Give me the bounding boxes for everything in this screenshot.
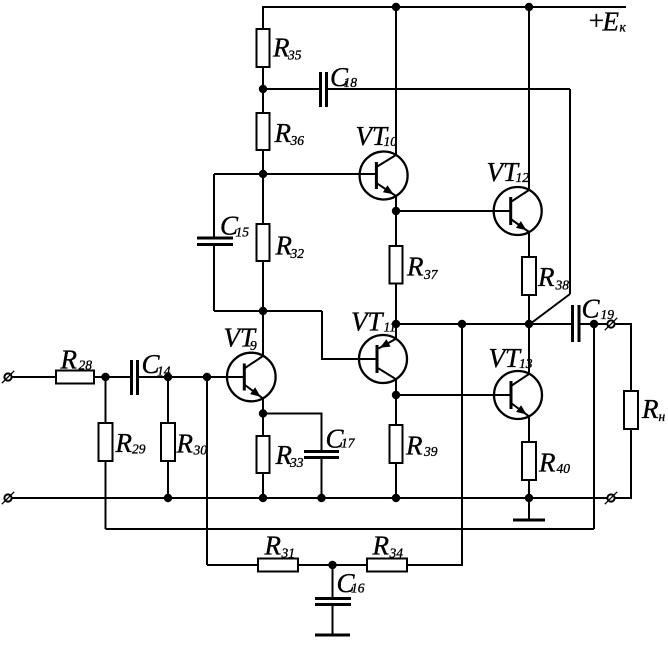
wire: VT13 collector lead to output node (528, 324, 530, 374)
capacitor C17 (304, 452, 339, 458)
wire: C18 right vertical drop (569, 89, 571, 294)
resistor R34 (367, 559, 407, 572)
transistor VT10 (360, 152, 408, 200)
svg-text:E: E (602, 7, 620, 37)
svg-text:39: 39 (423, 444, 438, 459)
svg-text:35: 35 (287, 48, 302, 63)
svg-text:R: R (538, 448, 556, 478)
wire: junction down to R29 (105, 377, 107, 423)
svg-text:18: 18 (344, 75, 358, 90)
wire: VT12 base line (396, 210, 511, 212)
svg-text:10: 10 (384, 134, 398, 149)
wire: R34 right lead up to output line (407, 324, 462, 565)
node: top rail / VT12 collector column (525, 3, 533, 11)
svg-text:12: 12 (516, 170, 530, 185)
svg-text:32: 32 (290, 246, 305, 261)
wire: VT13 emitter to R40 (528, 416, 530, 442)
transistor VT9 (227, 353, 276, 402)
capacitor C16 (315, 599, 351, 605)
wire: node to R37 top (395, 211, 397, 246)
svg-text:28: 28 (79, 358, 93, 373)
svg-text:R: R (537, 262, 555, 292)
svg-text:11: 11 (384, 320, 397, 335)
svg-text:R: R (264, 531, 282, 561)
svg-text:VT: VT (351, 307, 384, 337)
capacitor C18 (321, 72, 327, 107)
wire: Rn bottom to lower output terminal (615, 429, 631, 498)
wire: common rail (12, 497, 608, 499)
transistor VT12 (494, 187, 542, 235)
node: VT11 collector / R39 / VT13 base junction (392, 391, 400, 399)
terminal: input upper (2, 371, 14, 383)
capacitor C14 (132, 360, 138, 395)
node: VT9 emitter / R33 / C17 junction (259, 409, 267, 417)
resistor R31 (258, 559, 298, 572)
svg-text:н: н (659, 409, 666, 424)
wire: VT9 emitter lead (262, 399, 264, 414)
ground below C16 (315, 634, 350, 637)
svg-text:40: 40 (557, 461, 571, 476)
svg-text:к: к (620, 20, 627, 35)
wire: VT9 collector lead (262, 311, 264, 356)
resistor R32 (257, 224, 270, 261)
svg-text:19: 19 (601, 307, 615, 322)
wire: VT10 emitter lead (395, 196, 397, 211)
svg-text:R: R (406, 252, 424, 282)
wire: VT11 emitter lead from output node (395, 324, 397, 339)
node: R33 on rail (259, 494, 267, 502)
wire: VT10 base line from C15 top (214, 173, 377, 175)
wire: first stage output line C15 to VT11 drop (214, 310, 322, 312)
svg-text:38: 38 (555, 278, 570, 293)
wire: C15 bottom lead (213, 245, 215, 312)
wire: R39 bottom to rail (395, 463, 397, 498)
svg-text:R: R (274, 118, 292, 148)
wire: R38 bottom to output node (528, 295, 530, 324)
resistor R40 (522, 442, 536, 480)
wire: R28 to C14 (94, 376, 130, 378)
transistor VT11 (pnp) (359, 335, 407, 383)
capacitor C15 (197, 238, 233, 245)
resistor R28 (56, 371, 94, 384)
svg-text:16: 16 (351, 581, 365, 596)
wire: R36 bottom to R32 top (262, 150, 264, 224)
svg-text:37: 37 (423, 267, 439, 282)
svg-text:R: R (60, 345, 78, 375)
svg-text:30: 30 (193, 443, 208, 458)
resistor R35 (257, 29, 270, 67)
wire: C14 to VT9 base (139, 376, 245, 378)
wire: input terminal to R28 (12, 376, 56, 378)
node: R39 on rail (392, 494, 400, 502)
node: top rail / VT10 collector column (392, 3, 400, 11)
svg-text:31: 31 (281, 546, 296, 561)
node: R37 / VT11 emitter junction on output line (392, 320, 400, 328)
wire: R33 bottom to common rail (262, 473, 264, 498)
svg-text:R: R (115, 428, 133, 458)
svg-text:C: C (582, 294, 601, 324)
node: output line / R34 feedback column (458, 320, 466, 328)
wire: diagonal from C18 drop to output node (530, 294, 570, 324)
resistor R37 (390, 246, 403, 284)
wire: VT10 collector column from rail (395, 7, 397, 155)
wire: R31 to R34 (298, 564, 367, 566)
svg-text:R: R (405, 431, 423, 461)
node: R36/R32/VT10-base junction (259, 170, 267, 178)
node: R30 on rail (164, 494, 172, 502)
svg-text:R: R (176, 429, 194, 459)
resistor Rn (load) (624, 391, 638, 429)
wire: junction down to R30 (167, 377, 169, 423)
resistor R39 (390, 425, 403, 463)
svg-text:34: 34 (389, 546, 404, 561)
node: R40 on rail (525, 494, 533, 502)
wire: feedback vertical from C19 node (593, 324, 595, 529)
node: R38 / VT13 collector / C18-diagonal junction (525, 320, 533, 328)
svg-text:R: R (641, 394, 659, 424)
resistor R38 (522, 257, 536, 295)
wire: R35 bottom to R36 top (262, 67, 264, 113)
svg-text:15: 15 (236, 225, 250, 240)
svg-text:13: 13 (519, 356, 533, 371)
wire: output line y=324 (396, 323, 571, 325)
node: R35/R36/C18 junction (259, 85, 267, 93)
wire: C18 left lead (263, 88, 319, 90)
wire: emitter node to R33 (262, 414, 264, 437)
resistor R29 (99, 423, 113, 461)
wire: C15 top lead (213, 174, 215, 238)
wire: feedback horizontal line (106, 528, 595, 530)
wire: C18 right lead across to right column (328, 88, 570, 90)
transistor VT13 (494, 371, 542, 419)
node: C19 / feedback takeoff (590, 320, 598, 328)
resistor R30 (161, 423, 175, 461)
wire: C16 bottom lead (332, 605, 334, 636)
node: R31 column top junction (203, 373, 211, 381)
node: R28 / R29 / C14 junction (101, 373, 109, 381)
wire: node to R39 top (395, 395, 397, 425)
svg-text:36: 36 (290, 133, 305, 148)
wire: output terminal to Rn top (615, 324, 631, 391)
resistor R33 (257, 436, 270, 473)
svg-text:33: 33 (289, 455, 304, 470)
wire: R29 bottom down to feedback line (105, 461, 107, 529)
wire: C16 top lead (332, 565, 334, 599)
wire: R32 bottom to first stage output node (262, 261, 264, 311)
wire: R37 bottom to output line (395, 284, 397, 325)
svg-text:17: 17 (341, 436, 356, 451)
wire: VT12 collector column from rail (528, 7, 530, 190)
wire: VT11 collector lead (395, 379, 397, 395)
wire: drop to VT11 base (322, 311, 376, 359)
svg-text:9: 9 (250, 338, 257, 353)
node: R30 top junction (164, 373, 172, 381)
wire: +Ek top supply rail (263, 7, 626, 29)
wire: C19 right lead (581, 323, 608, 325)
node: C17 on rail (317, 494, 325, 502)
terminal: output upper (605, 318, 617, 330)
wire: R31 left lead (207, 564, 258, 566)
svg-text:R: R (372, 531, 390, 561)
terminal: input lower (2, 492, 14, 504)
terminal: output lower (605, 492, 617, 504)
ground below R40 (513, 498, 545, 520)
wire: VT12 emitter to R38 (528, 232, 530, 257)
wire: R30 bottom to rail (167, 461, 169, 498)
wire: C17 bottom lead to rail (321, 458, 323, 499)
wire: C17 top lead from emitter node (263, 414, 322, 452)
resistor R36 (257, 113, 270, 150)
node: C16 junction (328, 561, 336, 569)
wire: VT13 base line (396, 394, 512, 396)
capacitor C19 (573, 305, 580, 342)
node: R32 bottom / VT9 collector junction (259, 307, 267, 315)
svg-text:29: 29 (132, 442, 146, 457)
power label +Ek (587, 6, 627, 37)
node: VT10 emitter / R37 / VT12 base junction (392, 207, 400, 215)
wire: R40 bottom to rail (528, 480, 530, 498)
svg-text:VT: VT (489, 343, 522, 373)
wire: R31 column down (206, 377, 208, 565)
